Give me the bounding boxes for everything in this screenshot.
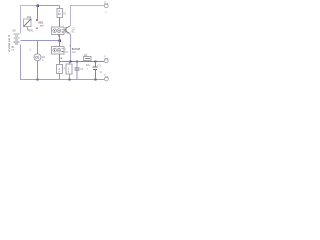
wire mic drop lower	[37, 61, 39, 80]
terminal TP2 wire	[96, 60, 105, 62]
svg-text:tp: tp	[104, 1, 107, 4]
svg-text:k: k	[68, 70, 70, 74]
svg-text:10k: 10k	[27, 15, 32, 19]
wire left rail below battery	[21, 45, 105, 80]
resistor R3 box	[66, 64, 72, 74]
transistor Q1	[65, 27, 67, 33]
microphone MIC1 circle	[34, 54, 41, 61]
T1 winding circles	[53, 29, 57, 33]
wire top rail from battery +	[21, 6, 38, 34]
wire antenna drop x=37.5	[37, 6, 39, 20]
junction dot low rail x=77	[76, 61, 78, 63]
junction dot low rail x=70	[69, 60, 71, 62]
junction dot bottom wire at mic column	[37, 79, 39, 81]
terminal TP1	[104, 4, 108, 8]
red pin mark T1 bottom	[58, 35, 60, 37]
svg-text:9V: 9V	[13, 29, 17, 33]
svg-text:C1: C1	[80, 68, 84, 71]
red pin mark T2 stub	[60, 57, 62, 59]
resistor R2 box	[57, 65, 63, 74]
svg-text:o1: o1	[105, 12, 108, 14]
red pin mark emitter	[70, 45, 72, 47]
wire collector up	[70, 6, 105, 27]
junction dot mid rail at x=60	[59, 40, 62, 43]
svg-text:T2: T2	[65, 51, 69, 54]
wire emitter down	[69, 34, 72, 62]
capacitor C3 polarized	[95, 61, 97, 66]
T2 winding circles	[53, 48, 57, 52]
transistor Q1 base wire	[64, 29, 66, 31]
svg-text:pp: pp	[12, 49, 15, 52]
battery B1 bars	[14, 34, 20, 40]
svg-text:R2: R2	[64, 69, 68, 71]
potentiometer VR1 bottom stub	[28, 27, 30, 31]
capacitor C1	[76, 61, 78, 67]
svg-text:M: M	[58, 12, 61, 16]
junction dot bottom wire at R3 column	[69, 79, 71, 81]
potentiometer VR1 arrow	[24, 19, 31, 26]
svg-text:C3: C3	[98, 65, 102, 68]
svg-text:1: 1	[42, 59, 44, 62]
T1 core bars	[62, 28, 64, 30]
terminal TP2	[104, 58, 108, 62]
svg-text:1: 1	[61, 42, 63, 46]
pin red mark P2	[36, 27, 38, 29]
svg-text:ls: ls	[30, 49, 33, 52]
svg-text:0v: 0v	[100, 71, 103, 74]
wire R2 pins	[59, 61, 61, 64]
wire T2 bottom stub	[59, 54, 61, 61]
svg-text:tp: tp	[104, 73, 107, 76]
diode D1 box	[84, 57, 91, 61]
svg-text:+: +	[87, 67, 89, 70]
transformer T1 box	[52, 27, 65, 35]
wire R3 pins	[69, 61, 71, 64]
svg-text:ant: ant	[40, 24, 44, 28]
wire mic drop upper	[37, 41, 39, 55]
svg-text:R1: R1	[63, 13, 67, 16]
wire low rail y=61.3	[60, 60, 96, 62]
svg-text:VR1: VR1	[29, 29, 35, 33]
svg-text:crystal set rx: crystal set rx	[7, 34, 11, 52]
resistor R1 box	[57, 9, 63, 18]
wire into R1 from top rail	[59, 6, 61, 9]
potentiometer VR1 box	[24, 19, 32, 27]
wire mid rail y=40.5	[21, 40, 61, 42]
junction dot bottom wire at C3 column	[95, 79, 97, 81]
svg-text:BC: BC	[72, 30, 76, 33]
junction dot corner x=95.5 y=61	[94, 60, 96, 62]
svg-text:npn: npn	[72, 51, 77, 54]
pin red mark P1	[36, 19, 38, 21]
T2 core bars	[62, 48, 64, 50]
node A junction dot top rail	[37, 5, 40, 8]
transformer T2 box	[52, 47, 65, 55]
wire T1 bottom to mid rail	[59, 35, 61, 47]
svg-text:tp: tp	[104, 55, 107, 58]
terminal TP3	[105, 77, 109, 81]
wire R1 to T1	[59, 18, 61, 28]
